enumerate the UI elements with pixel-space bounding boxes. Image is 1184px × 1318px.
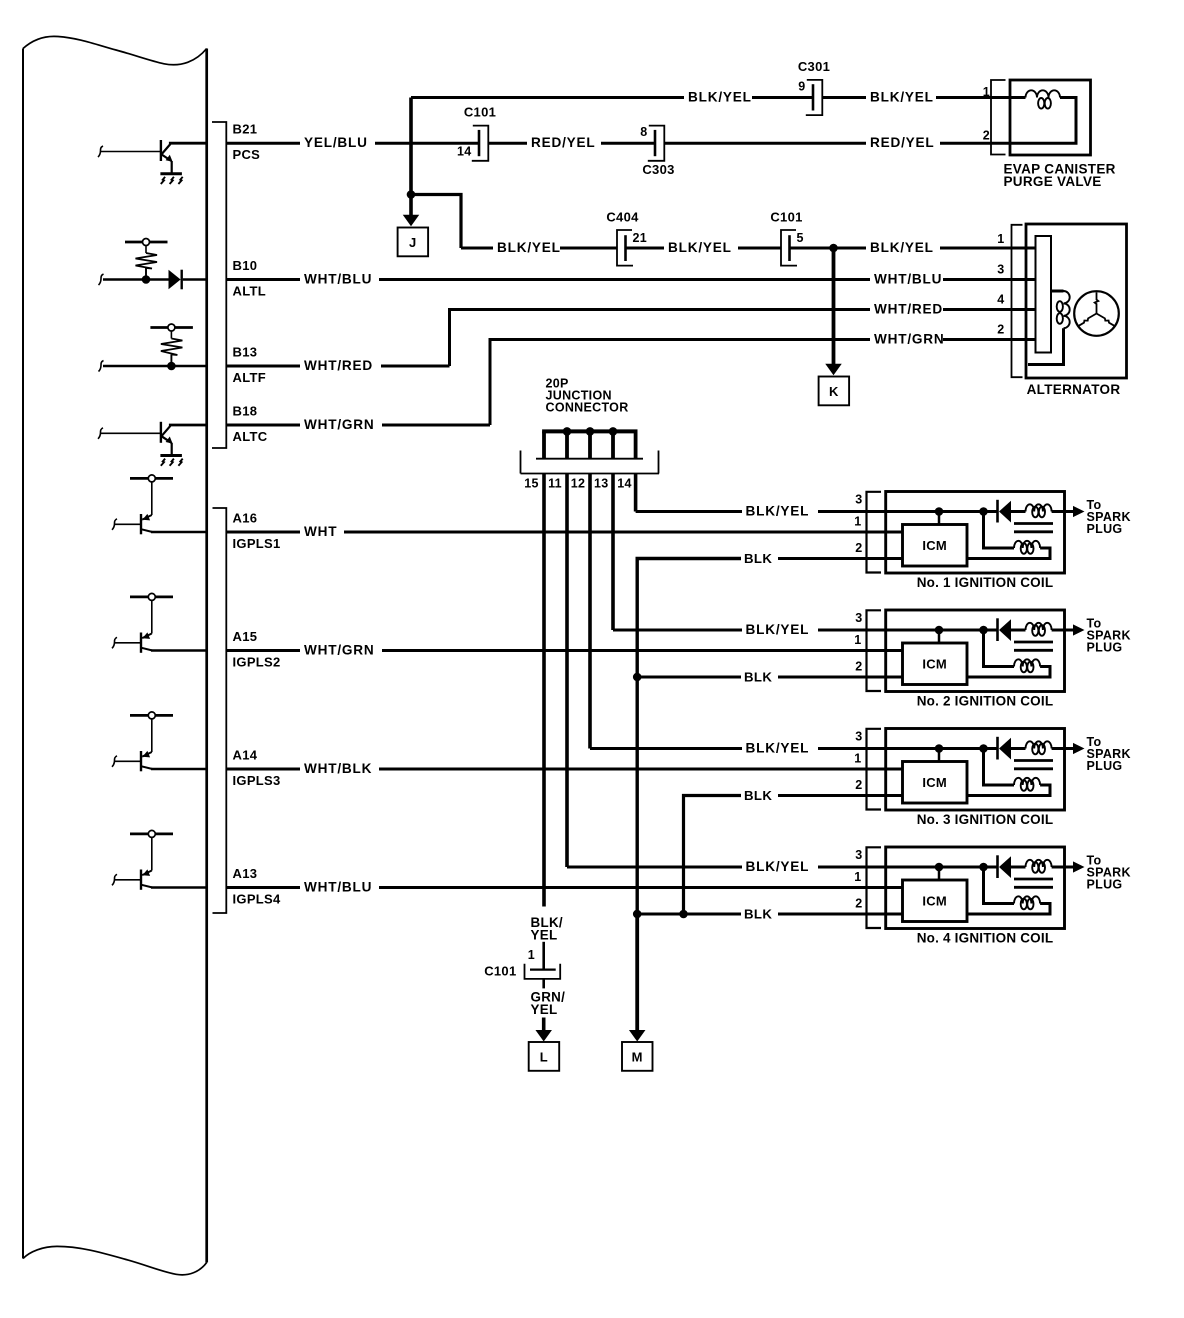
svg-text:1: 1	[854, 752, 861, 766]
svg-text:C404: C404	[606, 210, 639, 225]
svg-text:12: 12	[571, 477, 586, 491]
transistor Q6 IGPLS4 driver	[130, 833, 173, 836]
svg-text:ALTC: ALTC	[233, 429, 268, 444]
junction wire 15 down	[542, 474, 546, 907]
svg-text:PCS: PCS	[233, 147, 261, 162]
svg-text:BLK: BLK	[744, 788, 772, 803]
svg-text:BLK/YEL: BLK/YEL	[746, 622, 810, 637]
svg-text:C301: C301	[798, 59, 830, 74]
junction wire 14 down	[634, 474, 638, 512]
svg-text:BLK: BLK	[744, 907, 772, 922]
No. 2 ignition coil box	[886, 610, 1065, 692]
resistor R1 pull-up ALTL	[125, 241, 168, 244]
svg-text:ALTL: ALTL	[233, 284, 266, 299]
diode coil 2	[996, 618, 999, 641]
svg-text:IGPLS4: IGPLS4	[233, 892, 282, 907]
node BLK coil 4 dot right	[679, 910, 688, 919]
wire BLK bus to arrow M	[635, 914, 639, 1031]
svg-text:B10: B10	[233, 258, 258, 273]
wire ALTF internal	[99, 361, 104, 372]
svg-text:3: 3	[997, 263, 1004, 277]
box K	[819, 377, 850, 406]
wire to arrow K	[832, 248, 836, 364]
svg-text:WHT/RED: WHT/RED	[874, 302, 943, 317]
svg-text:2: 2	[855, 778, 862, 792]
wire BLK/YEL to alternator pin 1	[790, 247, 867, 250]
No. 3 ignition coil box	[886, 729, 1065, 811]
coil 1 pin 2 wire to ICM	[867, 557, 903, 560]
ECM left edge	[22, 49, 24, 1259]
wire BLK/YEL to coil 1	[636, 510, 742, 513]
alternator regulator block	[1036, 236, 1052, 353]
svg-text:RED/YEL: RED/YEL	[870, 135, 935, 150]
svg-text:B21: B21	[233, 122, 258, 137]
node coil 2 primary dot	[935, 626, 944, 635]
wire BLK to coil 4	[637, 913, 741, 916]
No. 2 ignition coil pin 3 wire	[867, 629, 939, 632]
coil 1 transformer core	[1014, 522, 1053, 525]
svg-text:1: 1	[997, 232, 1004, 246]
svg-text:WHT/GRN: WHT/GRN	[304, 417, 375, 432]
wire BLK bus continues	[636, 677, 639, 914]
wire WHT IGPLS1 to coil 1 pin 1	[227, 531, 300, 534]
svg-text:2: 2	[855, 660, 862, 674]
svg-text:WHT/BLU: WHT/BLU	[304, 880, 372, 895]
alternator stator	[1074, 291, 1119, 336]
resistor R2 pull-up ALTF	[150, 326, 193, 329]
svg-text:C101: C101	[484, 964, 516, 979]
svg-text:IGPLS2: IGPLS2	[233, 655, 281, 670]
svg-text:BLK/YEL: BLK/YEL	[497, 240, 561, 255]
svg-text:1: 1	[854, 870, 861, 884]
coil 4 pin 2 wire to ICM	[867, 913, 903, 916]
wire to spark plug 1	[1065, 510, 1076, 513]
svg-text:ICM: ICM	[922, 775, 947, 790]
svg-text:13: 13	[594, 477, 609, 491]
svg-text:L: L	[540, 1050, 548, 1065]
No. 1 ignition coil box	[886, 492, 1065, 574]
svg-text:IGPLS3: IGPLS3	[233, 773, 281, 788]
ECM connector bracket group B	[212, 122, 226, 448]
coil 3 primary winding	[1026, 741, 1052, 748]
svg-text:WHT/BLU: WHT/BLU	[874, 272, 942, 287]
arrow K	[825, 364, 842, 376]
coil 4 transformer core	[1014, 878, 1053, 881]
No. 3 ignition coil pin 3 wire	[867, 747, 939, 750]
svg-text:BLK/YEL: BLK/YEL	[746, 741, 810, 756]
svg-text:2: 2	[855, 897, 862, 911]
wire WHT/GRN IGPLS2 to coil 2 pin 1	[227, 649, 300, 652]
svg-text:BLK: BLK	[744, 551, 772, 566]
wire BLK/YEL to coil 4	[567, 866, 742, 869]
coil 3 transformer core	[1014, 759, 1053, 762]
svg-text:A16: A16	[233, 511, 258, 526]
wire to spark plug 4	[1065, 866, 1076, 869]
svg-text:C303: C303	[642, 162, 674, 177]
svg-text:J: J	[409, 235, 417, 250]
coil 3 ICM link	[938, 749, 941, 762]
ICM box coil 2	[903, 643, 968, 685]
No. 4 ignition coil box	[886, 847, 1065, 929]
coil 4 ICM link	[938, 867, 941, 880]
svg-text:B13: B13	[233, 345, 258, 360]
svg-text:BLK: BLK	[744, 670, 772, 685]
svg-text:WHT/GRN: WHT/GRN	[304, 643, 375, 658]
svg-text:PLUG: PLUG	[1087, 759, 1123, 773]
node K junction dot	[829, 244, 838, 253]
box J	[398, 228, 429, 257]
wire RED/YEL to purge valve pin 2	[665, 142, 866, 145]
coil 4 secondary winding	[984, 867, 1015, 904]
coil 3 pin 1 wire to ICM	[867, 768, 903, 771]
svg-text:YEL: YEL	[531, 1002, 558, 1017]
svg-text:14: 14	[617, 477, 632, 491]
ECM right edge	[205, 49, 208, 1263]
wire BLK/YEL to coil 3	[590, 747, 742, 750]
No. 2 ignition coil connector bracket	[867, 610, 882, 691]
svg-text:BLK/YEL: BLK/YEL	[668, 240, 732, 255]
svg-text:11: 11	[548, 477, 562, 491]
coil 2 secondary winding	[984, 630, 1015, 667]
coil 2 pin 1 wire to ICM	[867, 649, 903, 652]
svg-text:RED/YEL: RED/YEL	[531, 135, 596, 150]
transistor Q1 PCS driver	[98, 146, 103, 157]
svg-text:C101: C101	[770, 210, 802, 225]
svg-text:1: 1	[528, 948, 535, 962]
wire to arrow J	[409, 195, 413, 216]
coil 2 primary winding	[1026, 623, 1052, 630]
ICM box coil 1	[903, 525, 968, 567]
svg-text:8: 8	[640, 125, 647, 139]
svg-text:No. 1 IGNITION COIL: No. 1 IGNITION COIL	[917, 575, 1054, 590]
connector C101 pin 14	[478, 130, 481, 156]
diode D1 ALTL	[99, 274, 104, 285]
svg-text:No. 4 IGNITION COIL: No. 4 IGNITION COIL	[917, 931, 1054, 946]
node BLK coil 4 dot left	[633, 910, 642, 919]
svg-text:15: 15	[524, 477, 539, 491]
wire WHT/BLU IGPLS4 to coil 4 pin 1	[227, 886, 300, 889]
arrow L	[535, 1030, 552, 1042]
wire RED/YEL to C303	[489, 142, 527, 145]
svg-text:PLUG: PLUG	[1087, 522, 1123, 536]
node BLK coil 2 dot	[633, 673, 642, 682]
svg-text:WHT/RED: WHT/RED	[304, 358, 373, 373]
wire to spark plug 2	[1065, 629, 1076, 632]
No. 1 ignition coil connector bracket	[867, 492, 882, 573]
node coil 4 secondary dot	[979, 863, 988, 872]
svg-text:WHT/BLU: WHT/BLU	[304, 272, 372, 287]
svg-text:BLK/YEL: BLK/YEL	[870, 240, 934, 255]
coil 1 ICM link	[938, 512, 941, 525]
svg-text:C101: C101	[464, 105, 496, 120]
svg-text:5: 5	[797, 231, 804, 245]
diode coil 3	[996, 737, 999, 760]
svg-text:B18: B18	[233, 404, 258, 419]
svg-text:IGPLS1: IGPLS1	[233, 536, 281, 551]
arrow J	[403, 215, 420, 227]
svg-text:ICM: ICM	[922, 893, 947, 908]
junction wire 11 down	[565, 474, 569, 868]
EVAP purge valve solenoid coil	[1026, 90, 1061, 97]
svg-text:2: 2	[997, 323, 1004, 337]
No. 4 ignition coil connector bracket	[867, 847, 882, 928]
transistor Q4 IGPLS2 driver	[130, 596, 173, 599]
svg-text:2: 2	[983, 129, 990, 143]
svg-text:3: 3	[855, 611, 862, 625]
junction wire 13 down	[611, 474, 615, 631]
box M	[622, 1042, 653, 1071]
svg-text:BLK/YEL: BLK/YEL	[688, 90, 752, 105]
20P junction connector housing	[536, 458, 643, 460]
ECM connector bracket group A	[213, 508, 227, 913]
ICM box coil 4	[903, 880, 968, 922]
svg-text:3: 3	[855, 493, 862, 507]
transistor Q3 IGPLS1 driver	[130, 477, 173, 480]
svg-text:WHT/BLK: WHT/BLK	[304, 761, 372, 776]
svg-text:PLUG: PLUG	[1087, 878, 1123, 892]
svg-text:2: 2	[855, 541, 862, 555]
svg-text:3: 3	[855, 848, 862, 862]
wire BLK/YEL jog to row 248	[411, 195, 461, 249]
svg-text:1: 1	[854, 633, 861, 647]
ECM torn top edge	[23, 36, 207, 64]
alternator field coil	[1051, 290, 1064, 293]
svg-text:ICM: ICM	[922, 656, 947, 671]
coil 3 pin 2 wire to ICM	[867, 794, 903, 797]
coil 2 transformer core	[1014, 641, 1053, 644]
coil 1 pin 1 wire to ICM	[867, 531, 903, 534]
node coil 1 primary dot	[935, 507, 944, 516]
svg-text:A14: A14	[233, 748, 258, 763]
diode coil 4	[996, 855, 999, 878]
wire to arrow L	[542, 1018, 546, 1032]
transistor Q2 ALTC driver	[98, 428, 103, 439]
No. 3 ignition coil connector bracket	[867, 729, 882, 810]
svg-text:14: 14	[457, 145, 472, 159]
EVAP purge valve box	[1010, 80, 1091, 155]
box L	[529, 1042, 560, 1071]
coil 2 ICM link	[938, 630, 941, 643]
node coil 4 primary dot	[935, 863, 944, 872]
svg-text:YEL/BLU: YEL/BLU	[304, 135, 368, 150]
svg-text:1: 1	[854, 515, 861, 529]
wire BLK/YEL branch vertical	[409, 98, 413, 195]
junction wire 12 down	[588, 474, 592, 749]
wire WHT/GRN from B18 to alternator pin 2	[227, 424, 300, 427]
svg-text:21: 21	[633, 231, 648, 245]
ECM torn bottom edge	[23, 1246, 207, 1274]
wire WHT/BLU from B10 to alternator pin 3	[227, 278, 300, 281]
svg-text:1: 1	[983, 85, 990, 99]
wire BLK/YEL to coil 2	[613, 629, 742, 632]
No. 1 ignition coil pin 3 wire	[867, 510, 939, 513]
wire BLK to coil 2	[637, 676, 741, 679]
svg-text:ICM: ICM	[922, 538, 947, 553]
coil 4 primary winding	[1026, 860, 1052, 867]
20P junction connector bus dots	[563, 427, 572, 436]
connector C303 pin 8	[654, 130, 657, 156]
node coil 3 primary dot	[935, 744, 944, 753]
svg-text:PURGE VALVE: PURGE VALVE	[1004, 174, 1102, 189]
coil 4 pin 1 wire to ICM	[867, 886, 903, 889]
svg-text:YEL: YEL	[531, 928, 558, 943]
wire BLK/YEL to purge valve pin 1	[823, 96, 867, 99]
svg-text:BLK/YEL: BLK/YEL	[870, 90, 934, 105]
svg-text:K: K	[829, 384, 839, 399]
svg-text:ALTF: ALTF	[233, 370, 266, 385]
coil 1 primary winding	[1026, 504, 1052, 511]
ICM box coil 3	[903, 762, 968, 804]
connector C101 pin 5	[788, 235, 791, 261]
node coil 2 secondary dot	[979, 626, 988, 635]
svg-text:A13: A13	[233, 866, 258, 881]
node J junction dot	[407, 190, 416, 199]
coil 1 secondary winding	[984, 512, 1015, 549]
svg-text:BLK/YEL: BLK/YEL	[746, 859, 810, 874]
wire BLK/YEL between C404 and C101	[626, 247, 665, 250]
wire YEL/BLU from B21	[227, 142, 300, 145]
coil 3 secondary winding	[984, 749, 1015, 786]
wire BLK from coil 3	[778, 794, 867, 797]
No. 4 ignition coil pin 3 wire	[867, 866, 939, 869]
svg-text:PLUG: PLUG	[1087, 641, 1123, 655]
svg-text:ALTERNATOR: ALTERNATOR	[1027, 382, 1121, 397]
20P junction connector busbar	[542, 429, 637, 433]
connector C301 pin 9	[812, 84, 815, 110]
node coil 1 secondary dot	[979, 507, 988, 516]
node coil 3 secondary dot	[979, 744, 988, 753]
alternator box	[1026, 224, 1127, 378]
svg-text:No. 2 IGNITION COIL: No. 2 IGNITION COIL	[917, 694, 1054, 709]
wire WHT/RED from B13 to alternator pin 4	[227, 365, 300, 368]
EVAP purge valve connector bracket	[991, 80, 1006, 155]
svg-text:A15: A15	[233, 629, 258, 644]
alternator connector bracket	[1012, 225, 1023, 377]
svg-text:4: 4	[997, 293, 1004, 307]
wire to spark plug 3	[1065, 747, 1076, 750]
wire BLK bus from coil 1	[778, 557, 867, 560]
wire WHT/BLK IGPLS3 to coil 3 pin 1	[227, 768, 300, 771]
svg-text:CONNECTOR: CONNECTOR	[546, 401, 629, 415]
diode coil 1	[996, 500, 999, 523]
wire BLK/YEL top row	[411, 96, 684, 99]
arrow M	[629, 1030, 646, 1042]
svg-text:M: M	[632, 1050, 643, 1065]
connector C101 pin 1 bottom	[542, 942, 545, 969]
svg-text:3: 3	[855, 730, 862, 744]
wire BLK/YEL row to C404	[461, 247, 493, 250]
svg-text:No. 3 IGNITION COIL: No. 3 IGNITION COIL	[917, 812, 1054, 827]
transistor Q5 IGPLS3 driver	[130, 714, 173, 717]
coil 2 pin 2 wire to ICM	[867, 676, 903, 679]
svg-text:BLK/YEL: BLK/YEL	[746, 504, 810, 519]
svg-text:WHT/GRN: WHT/GRN	[874, 332, 945, 347]
svg-text:WHT: WHT	[304, 524, 337, 539]
svg-text:9: 9	[798, 80, 805, 94]
connector C404 pin 21	[624, 235, 627, 261]
